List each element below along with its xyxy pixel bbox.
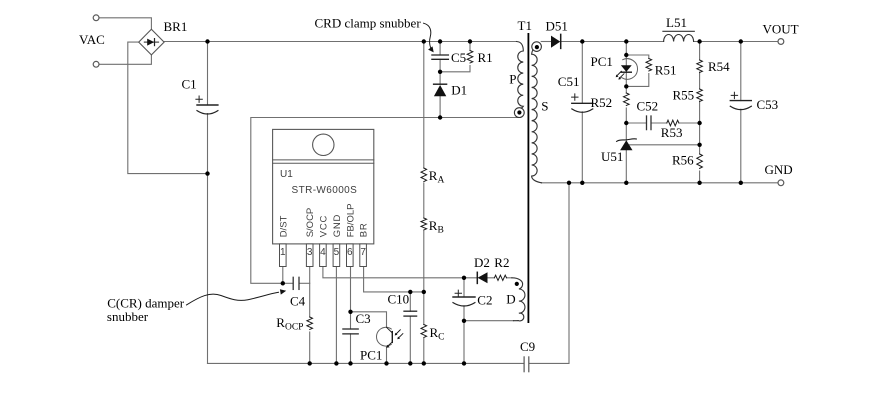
diode D1 (434, 84, 447, 96)
wire BR1 left corner to C1 bottom node (128, 42, 208, 174)
resistor R54 (697, 60, 703, 73)
svg-text:6: 6 (347, 247, 353, 258)
capacitor C52 (647, 116, 652, 130)
svg-text:R55: R55 (673, 87, 695, 102)
wire R_OCP to ground rail (309, 332, 311, 363)
capacitor C51 (572, 94, 593, 112)
svg-text:VOUT: VOUT (763, 21, 799, 36)
IC U1 pin 7 (360, 244, 367, 267)
svg-text:7: 7 (360, 247, 366, 258)
svg-text:S/OCP: S/OCP (305, 208, 316, 238)
resistor R55 (697, 89, 703, 102)
node top rail C1 (205, 39, 209, 43)
wire pin5 GND down to ground rail (335, 267, 337, 364)
terminal VAC top (93, 15, 99, 21)
svg-text:C4: C4 (290, 294, 306, 309)
svg-text:P: P (509, 72, 516, 87)
resistor R51 (646, 59, 652, 72)
node VCC C2 D2 (462, 276, 466, 280)
wire R53 to divider (679, 122, 700, 124)
node R52 C52 (624, 121, 628, 125)
wire C51 upper (581, 42, 583, 104)
diode D51 (551, 34, 561, 48)
node C5 R1 D1 (438, 70, 442, 74)
resistor R52 (624, 93, 630, 106)
wire RC to ground rail (423, 339, 425, 364)
wire drain loop: primary bottom to D/ST pin (251, 118, 520, 284)
wire LED cathode to node (625, 72, 627, 86)
transformer T1 auxiliary winding D (512, 278, 525, 321)
transformer T1 polarity dot secondary (535, 45, 539, 49)
svg-text:PC1: PC1 (591, 54, 613, 69)
IC U1 pin 1 (280, 244, 287, 267)
wire bottom terminal to BR1 (99, 55, 151, 64)
terminal VAC bottom (93, 61, 99, 67)
resistor R2 (494, 275, 506, 280)
wire primary ground rail (208, 362, 524, 364)
svg-text:C3: C3 (356, 311, 371, 326)
annotation arrow C(CR) damper snubber (187, 289, 287, 305)
capacitor C53 (730, 92, 751, 109)
node C10 top (408, 290, 412, 294)
node top rail R1 (468, 39, 472, 43)
node D1 anode drain wire (438, 115, 442, 119)
svg-text:C1: C1 (182, 77, 197, 92)
transformer T1 secondary winding S (532, 42, 542, 183)
svg-text:snubber: snubber (107, 309, 149, 324)
wire C52 left (626, 122, 646, 124)
bridge rectifier BR1 (139, 29, 164, 55)
wire D1 anode down to drain wire (439, 96, 441, 117)
wire C4 to pin3 line (299, 282, 309, 284)
svg-text:D51: D51 (546, 19, 568, 34)
IC U1 pin 6 (347, 244, 354, 267)
svg-text:4: 4 (320, 247, 326, 258)
wire pin1 stub (282, 267, 284, 284)
svg-text:GND: GND (765, 162, 793, 177)
wire node to D1 (439, 72, 441, 84)
wire C3 lower (350, 334, 352, 364)
svg-text:5: 5 (334, 247, 340, 258)
capacitor C2 (453, 290, 475, 306)
resistor R53 (667, 120, 679, 126)
wire RB to BR node (423, 231, 425, 292)
node ground rail R_C (422, 361, 426, 365)
capacitor C5 (432, 55, 449, 59)
node ground rail PC1 emitter (384, 361, 388, 365)
node ground rail C2 (462, 361, 466, 365)
svg-text:R56: R56 (672, 153, 694, 168)
wire RA to RB (423, 183, 425, 218)
node LED R51 top (624, 53, 628, 57)
wire R54 chain (699, 42, 701, 183)
svg-text:C52: C52 (637, 99, 659, 114)
DOTS_START (205, 39, 743, 365)
wire D51 cathode to rail (561, 41, 664, 43)
wire C5 to node (439, 59, 441, 72)
svg-text:CRD clamp snubber: CRD clamp snubber (315, 16, 422, 31)
node ground rail pin5 (334, 361, 338, 365)
wire R1 bottom to node (440, 66, 470, 72)
capacitor C10 (404, 311, 417, 316)
resistor R56 (697, 154, 703, 168)
svg-text:S: S (541, 98, 548, 113)
node U51 ref divider (697, 143, 701, 147)
transformer T1 core (528, 33, 530, 323)
resistor R1 (467, 51, 473, 64)
svg-text:1: 1 (280, 247, 286, 258)
wire C2 branch top (463, 278, 465, 297)
wire pin1 node to C4 (283, 282, 293, 284)
node top rail PC1 LED (624, 39, 628, 43)
node ground rail C3 (348, 361, 352, 365)
node top rail C5 (438, 39, 442, 43)
svg-text:D1: D1 (451, 83, 467, 98)
svg-text:VAC: VAC (79, 32, 105, 47)
node R53 divider (697, 121, 701, 125)
node BR divider (422, 290, 426, 294)
capacitor C9 (524, 357, 529, 372)
svg-text:STR-W6000S: STR-W6000S (292, 185, 358, 196)
wire C10 lower (409, 316, 411, 363)
capacitor C4 (293, 277, 299, 289)
svg-text:R1: R1 (478, 50, 493, 65)
wire U51 anode to ground rail (625, 150, 627, 183)
transformer T1 primary winding P (514, 42, 524, 118)
transformer T1 polarity dot primary (517, 110, 521, 114)
resistor RA (421, 168, 427, 182)
wire BR node to RC (423, 292, 425, 325)
svg-text:T1: T1 (518, 18, 532, 33)
svg-text:BR1: BR1 (164, 19, 188, 34)
svg-text:C10: C10 (388, 292, 410, 307)
svg-text:L51: L51 (666, 15, 687, 30)
node BR1 negative to C1 (205, 171, 209, 175)
svg-text:C51: C51 (558, 74, 580, 89)
IC U1 pin 3 (306, 244, 313, 267)
terminal VOUT (778, 39, 784, 45)
wire R52 to feedback node (625, 108, 627, 123)
wire C1 branch upper (207, 42, 209, 106)
node top rail C51 (580, 39, 584, 43)
wire C53 lower (740, 109, 742, 183)
wire R1 top (469, 42, 471, 51)
resistor RB (421, 218, 427, 230)
node top rail divider (422, 39, 426, 43)
wire C53 upper (740, 42, 742, 101)
node secondary rail U51 (624, 181, 628, 185)
wire C10 upper (409, 292, 411, 311)
node ground rail R_OCP (308, 361, 312, 365)
wire C52 to R53 (651, 122, 667, 124)
capacitor C1 (196, 96, 218, 114)
wire top terminal to BR1 (99, 18, 151, 30)
wire C3 upper (350, 312, 352, 329)
svg-text:D: D (506, 291, 515, 306)
WIRES_START (99, 18, 778, 364)
svg-text:R52: R52 (591, 95, 613, 110)
svg-text:U1: U1 (280, 169, 293, 180)
wire C2 branch bottom (463, 306, 465, 364)
svg-text:BR: BR (359, 222, 370, 237)
annotation arrow CRD clamp snubber (424, 23, 434, 52)
resistor R_C (421, 325, 427, 338)
wire D winding return (464, 320, 514, 322)
node pin1 C4 (281, 281, 285, 285)
node secondary rail C51 (580, 181, 584, 185)
wire R51 parallel branch (626, 55, 649, 86)
resistor R_OCP (307, 317, 313, 330)
svg-text:GND: GND (332, 214, 343, 238)
IC U1 pin 5 (333, 244, 340, 267)
svg-text:R53: R53 (661, 125, 683, 140)
svg-text:D/ST: D/ST (278, 215, 289, 237)
transformer T1 polarity dot auxiliary (515, 282, 519, 286)
node secondary rail C53 (739, 181, 743, 185)
wire pin4 VCC down and right to C2/D2 node (323, 267, 464, 278)
wire rail after L51 to VOUT (694, 41, 778, 43)
wire divider line RA top (423, 42, 425, 169)
wire pin6 FB/OLP down (350, 267, 352, 312)
svg-text:U51: U51 (601, 149, 623, 164)
svg-text:C9: C9 (520, 339, 535, 354)
IC U1 package body (273, 129, 374, 244)
wire pin6 node to PC1 collector (351, 312, 387, 328)
svg-text:3: 3 (307, 247, 313, 258)
wire node to R52 (625, 86, 627, 93)
shunt regulator U51 (617, 139, 637, 150)
svg-text:C5: C5 (451, 50, 466, 65)
svg-text:FB/OLP: FB/OLP (345, 204, 356, 238)
optocoupler PC1 phototransistor side (377, 327, 403, 348)
wire pin3 S/OCP down to R_OCP (309, 267, 311, 318)
node C2 bottom D winding return (462, 319, 466, 323)
svg-text:PC1: PC1 (360, 348, 382, 363)
wire ground rail after C9 to secondary ground (529, 183, 569, 364)
diode D2 (477, 272, 487, 283)
node pin6 C3 (348, 310, 352, 314)
optocoupler PC1 LED side (616, 59, 638, 80)
wire pin7 BR down and right to divider (364, 267, 424, 292)
wire secondary top to D51 (541, 41, 551, 43)
wire U51 ref to divider (630, 144, 700, 146)
wire secondary ground rail (542, 182, 779, 184)
wire top rail primary (164, 41, 517, 43)
svg-text:R54: R54 (708, 59, 730, 74)
svg-text:R51: R51 (655, 63, 677, 78)
capacitor C3 (343, 329, 358, 334)
node top rail R54 (697, 39, 701, 43)
wire PC1 emitter to ground rail (386, 347, 388, 363)
terminal GND (778, 180, 784, 186)
wire C1 branch lower (207, 114, 209, 364)
wire D2 R2 segments (464, 277, 512, 279)
wire C51 lower (581, 112, 583, 183)
node secondary rail C9 riser (567, 181, 571, 185)
node LED R51 bottom (624, 84, 628, 88)
inductor L51 (663, 31, 694, 41)
wire snubber top to C5 (439, 42, 441, 56)
svg-text:C53: C53 (757, 97, 779, 112)
wire feedback node to U51 cathode (625, 123, 627, 140)
node secondary rail R56 (697, 181, 701, 185)
svg-text:VCC: VCC (318, 215, 329, 237)
IC U1 pin 4 (320, 244, 327, 267)
svg-text:R2: R2 (494, 255, 509, 270)
svg-text:C2: C2 (477, 292, 492, 307)
node top rail C53 (739, 39, 743, 43)
svg-text:D2: D2 (474, 255, 490, 270)
node ground rail C10 (408, 361, 412, 365)
TEXT_START (79, 15, 799, 362)
wire PC1 LED branch top (625, 42, 627, 66)
